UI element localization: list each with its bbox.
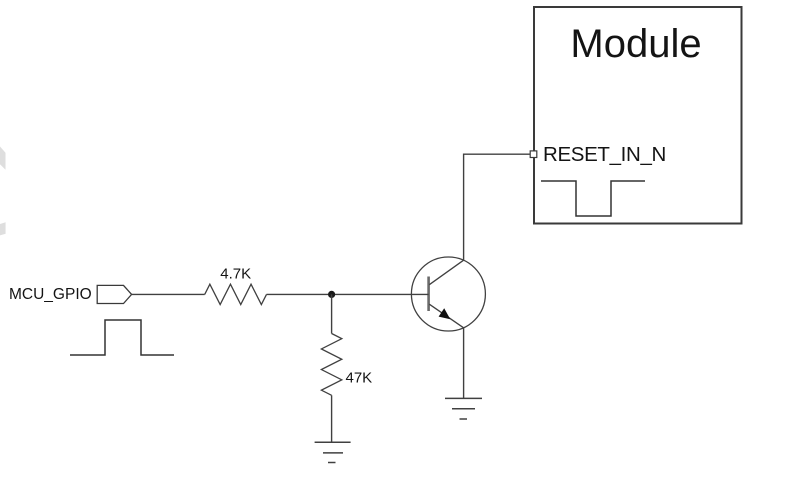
waveform reset negative pulse [541, 181, 645, 216]
ground under R2 bar2 [323, 452, 343, 454]
waveform gpio positive pulse [70, 320, 174, 355]
transistor Q1 collector stroke [429, 260, 463, 285]
ground under transistor bar2 [452, 408, 475, 410]
transistor Q1 emitter arrow [439, 308, 451, 319]
module box U1 [534, 7, 742, 224]
resistor R1 4.7K [205, 284, 267, 304]
svg-text:Module: Module [570, 22, 701, 66]
junction node [328, 291, 335, 298]
svg-text:47K: 47K [346, 369, 373, 386]
transistor Q1 body circle [411, 257, 485, 331]
wire R1 to Q1 base [267, 293, 429, 295]
resistor R2 47K [321, 334, 341, 396]
transistor Q1 emitter stroke [429, 304, 463, 328]
wire collector to module pin [464, 154, 531, 260]
wire emitter to ground [463, 328, 465, 399]
svg-text:MCU_GPIO: MCU_GPIO [9, 286, 92, 303]
wire port to R1 [132, 293, 205, 295]
ground under transistor bar3 [460, 418, 468, 420]
port connector symbol [97, 285, 131, 303]
ground under transistor bar1 [445, 397, 482, 399]
wire R2 to ground [331, 395, 333, 442]
wire junction to R2 [331, 294, 333, 333]
transistor Q1 base bar [427, 277, 430, 312]
svg-text:RESET_IN_N: RESET_IN_N [543, 143, 666, 166]
watermark fragment upper [0, 147, 6, 170]
ground under R2 bar3 [328, 462, 336, 464]
watermark fragment lower [0, 222, 6, 235]
svg-text:4.7K: 4.7K [220, 266, 251, 283]
ground under R2 bar1 [315, 441, 351, 443]
pin square RESET_IN_N [530, 151, 537, 158]
